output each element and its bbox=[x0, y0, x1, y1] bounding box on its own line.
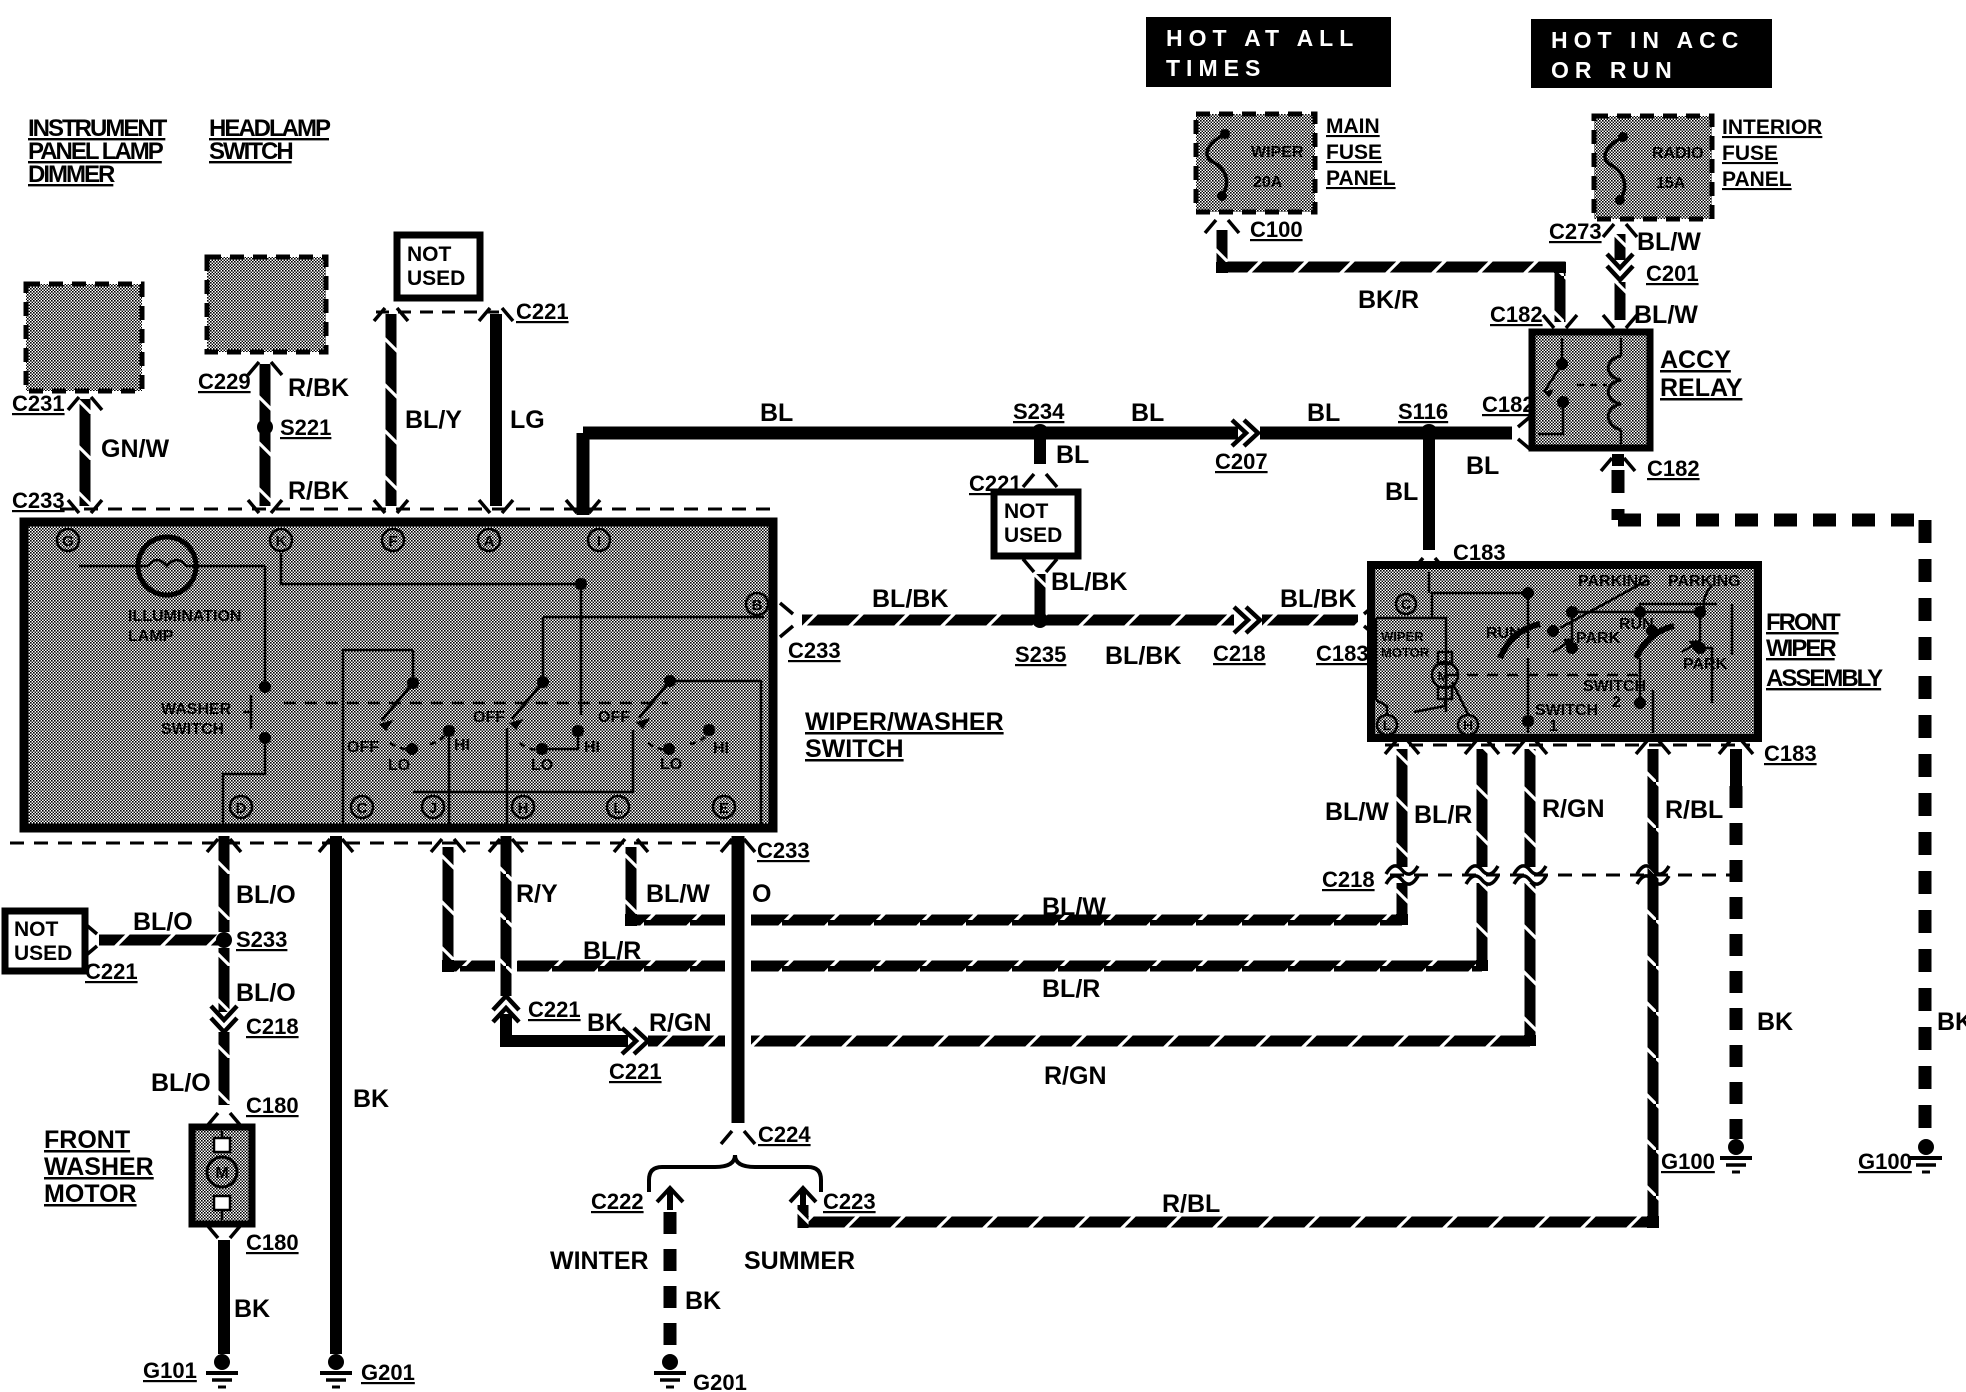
svg-text:PANEL: PANEL bbox=[1722, 168, 1792, 191]
svg-text:WIPER/WASHER: WIPER/WASHER bbox=[805, 708, 1004, 736]
splice S234 bbox=[1031, 424, 1049, 442]
svg-text:F: F bbox=[388, 533, 397, 550]
svg-text:BL/W: BL/W bbox=[1634, 301, 1698, 329]
connector C221 into not-used bbox=[1023, 474, 1057, 487]
label wiper/washer switch bbox=[805, 708, 1004, 763]
svg-text:BL: BL bbox=[1056, 441, 1089, 469]
brace bbox=[649, 1155, 821, 1192]
wire LG bbox=[490, 314, 502, 506]
label: main fuse panel bbox=[1326, 115, 1396, 190]
wire BL/BK below not-used bbox=[1023, 559, 1057, 572]
svg-text:SWITCH: SWITCH bbox=[1535, 702, 1598, 719]
wiper/washer switch box bbox=[24, 522, 773, 828]
dashed link bbox=[1447, 674, 1640, 677]
wire R/GN right vertical + horizontal bbox=[1525, 749, 1536, 867]
svg-text:USED: USED bbox=[14, 942, 72, 965]
svg-text:NOT: NOT bbox=[14, 918, 59, 941]
svg-text:BK: BK bbox=[1937, 1008, 1966, 1036]
svg-text:15A: 15A bbox=[1656, 175, 1686, 192]
label: front wiper assembly bbox=[1766, 609, 1883, 692]
connector C273 bbox=[1603, 224, 1637, 237]
svg-text:C218: C218 bbox=[1213, 641, 1266, 666]
wire BK then R/GN bbox=[506, 1014, 628, 1041]
svg-text:FRONT: FRONT bbox=[1766, 609, 1841, 636]
svg-text:BL/W: BL/W bbox=[1637, 228, 1701, 256]
svg-text:OFF: OFF bbox=[598, 709, 630, 726]
NOT USED box (left) bbox=[5, 911, 85, 971]
svg-text:ILLUMINATION: ILLUMINATION bbox=[128, 608, 241, 625]
connector C207 bbox=[1232, 420, 1258, 446]
svg-text:D: D bbox=[236, 800, 247, 817]
svg-text:C183: C183 bbox=[1316, 641, 1369, 666]
svg-text:INTERIOR: INTERIOR bbox=[1722, 116, 1822, 139]
wire BK/R from C100 to accy relay bbox=[1222, 230, 1560, 322]
svg-text:BL/O: BL/O bbox=[236, 979, 296, 1007]
svg-text:HI: HI bbox=[713, 740, 729, 757]
svg-text:PANEL: PANEL bbox=[1326, 167, 1396, 190]
svg-text:RELAY: RELAY bbox=[1660, 374, 1743, 402]
svg-text:C224: C224 bbox=[758, 1122, 811, 1147]
svg-text:PARKING: PARKING bbox=[1578, 573, 1651, 590]
connector C183 dashed line below assembly bbox=[1385, 744, 1750, 747]
svg-text:C201: C201 bbox=[1646, 261, 1699, 286]
wire BL below S116 to C183 bbox=[1423, 439, 1435, 550]
svg-text:G201: G201 bbox=[361, 1360, 415, 1385]
svg-text:BL/W: BL/W bbox=[1325, 798, 1389, 826]
svg-text:G100: G100 bbox=[1858, 1149, 1912, 1174]
svg-text:BL/O: BL/O bbox=[151, 1069, 211, 1097]
svg-text:C222: C222 bbox=[591, 1189, 644, 1214]
svg-text:C218: C218 bbox=[1322, 867, 1375, 892]
wire GN/W bbox=[80, 399, 91, 506]
svg-text:OFF: OFF bbox=[347, 739, 379, 756]
svg-text:BL: BL bbox=[1307, 399, 1340, 427]
park arrows bbox=[1553, 640, 1572, 652]
svg-text:BL: BL bbox=[1385, 478, 1418, 506]
svg-text:FRONT: FRONT bbox=[44, 1126, 130, 1154]
illumination lamp bbox=[138, 537, 196, 595]
svg-text:BL: BL bbox=[1131, 399, 1164, 427]
svg-text:NOT: NOT bbox=[407, 243, 452, 266]
connector C218 dashed line right bbox=[1390, 874, 1745, 877]
wire O from terminal E bbox=[732, 836, 745, 1123]
svg-text:BL/Y: BL/Y bbox=[405, 406, 462, 434]
fuse RADIO 15A bbox=[1605, 137, 1625, 200]
svg-text:BL/O: BL/O bbox=[236, 881, 296, 909]
connector C180 below motor bbox=[207, 1225, 241, 1238]
front wiper assembly box bbox=[1371, 565, 1758, 738]
svg-text:WIPER: WIPER bbox=[1381, 629, 1424, 644]
instrument panel lamp dimmer box bbox=[26, 284, 142, 391]
splice S221 bbox=[257, 419, 273, 435]
svg-text:FUSE: FUSE bbox=[1722, 142, 1778, 165]
svg-text:K: K bbox=[276, 533, 287, 550]
B internal line bbox=[543, 617, 764, 676]
svg-text:RADIO: RADIO bbox=[1652, 145, 1704, 162]
svg-text:RUN: RUN bbox=[1619, 616, 1654, 633]
headlamp switch box bbox=[207, 257, 326, 352]
svg-text:C233: C233 bbox=[788, 638, 841, 663]
svg-text:BL/BK: BL/BK bbox=[1280, 585, 1356, 613]
svg-text:DIMMER: DIMMER bbox=[28, 161, 115, 188]
front washer motor bbox=[192, 1127, 252, 1224]
svg-text:GN/W: GN/W bbox=[101, 435, 169, 463]
interior fuse panel box bbox=[1594, 116, 1712, 219]
svg-text:WIPER: WIPER bbox=[1251, 144, 1304, 161]
svg-text:SUMMER: SUMMER bbox=[744, 1247, 855, 1275]
svg-text:C221: C221 bbox=[85, 959, 138, 984]
svg-text:BL/R: BL/R bbox=[583, 937, 641, 965]
svg-text:MOTOR: MOTOR bbox=[44, 1180, 137, 1208]
svg-text:G100: G100 bbox=[1661, 1149, 1715, 1174]
svg-text:HOT AT ALL: HOT AT ALL bbox=[1166, 25, 1359, 51]
wire BL/W right vertical + horizontal bbox=[1397, 749, 1408, 867]
svg-text:C273: C273 bbox=[1549, 219, 1602, 244]
svg-text:C231: C231 bbox=[12, 391, 65, 416]
svg-text:J: J bbox=[429, 800, 437, 817]
svg-text:WASHER: WASHER bbox=[161, 701, 232, 718]
svg-text:C233: C233 bbox=[757, 838, 810, 863]
svg-text:USED: USED bbox=[407, 267, 465, 290]
svg-text:TIMES: TIMES bbox=[1166, 55, 1266, 81]
wire BK dashed to G201 bbox=[664, 1212, 677, 1350]
wire BK dashed from assembly bbox=[1730, 749, 1742, 786]
connector C201 bbox=[1607, 254, 1633, 280]
svg-text:BL/R: BL/R bbox=[1042, 975, 1100, 1003]
svg-text:OR RUN: OR RUN bbox=[1551, 57, 1678, 83]
svg-text:SWITCH: SWITCH bbox=[1583, 678, 1646, 695]
svg-text:C233: C233 bbox=[12, 488, 65, 513]
run arcs bbox=[1500, 624, 1540, 658]
svg-text:BL: BL bbox=[1466, 452, 1499, 480]
svg-text:ACCY: ACCY bbox=[1660, 346, 1731, 374]
wire BK dashed from relay to G100 bbox=[1612, 454, 1624, 466]
svg-text:ASSEMBLY: ASSEMBLY bbox=[1766, 665, 1883, 692]
splice S116 bbox=[1420, 424, 1438, 442]
svg-text:C223: C223 bbox=[823, 1189, 876, 1214]
svg-text:C180: C180 bbox=[246, 1230, 299, 1255]
connector C100 bbox=[1205, 220, 1239, 233]
svg-text:BL/O: BL/O bbox=[133, 908, 193, 936]
svg-text:HI: HI bbox=[454, 737, 470, 754]
svg-text:R/BL: R/BL bbox=[1162, 1190, 1220, 1218]
svg-text:LO: LO bbox=[388, 757, 410, 774]
svg-text:PARKING: PARKING bbox=[1668, 573, 1741, 590]
connector C223 bbox=[790, 1188, 816, 1210]
junction dots in assembly bbox=[1522, 587, 1706, 727]
connector C233 dashed line below switch bbox=[10, 842, 752, 845]
switch3 frame bbox=[413, 681, 761, 824]
label: interior fuse panel bbox=[1722, 116, 1822, 191]
label: front washer motor bbox=[44, 1126, 154, 1208]
svg-text:S234: S234 bbox=[1013, 399, 1065, 424]
main fuse panel box bbox=[1196, 114, 1315, 212]
svg-text:LG: LG bbox=[510, 406, 545, 434]
svg-text:E: E bbox=[719, 800, 729, 817]
svg-text:C182: C182 bbox=[1647, 456, 1700, 481]
assembly terminal circles bbox=[1377, 594, 1478, 735]
wire BL main horizontal bbox=[577, 433, 590, 515]
connector C222 bbox=[657, 1188, 683, 1210]
svg-text:R/GN: R/GN bbox=[649, 1009, 712, 1037]
wiper motor frame bbox=[1376, 618, 1446, 712]
svg-text:I: I bbox=[597, 533, 601, 550]
svg-text:C183: C183 bbox=[1764, 741, 1817, 766]
wire BK from terminal C to G201 bbox=[330, 836, 342, 1354]
connector C182 left of relay bbox=[1518, 416, 1531, 450]
svg-text:1: 1 bbox=[1549, 718, 1558, 735]
svg-text:S116: S116 bbox=[1398, 399, 1448, 424]
svg-text:C100: C100 bbox=[1250, 217, 1303, 242]
dashed mechanical link bbox=[284, 702, 668, 705]
ground G100 right bbox=[1910, 1139, 1942, 1172]
connector C224 bbox=[721, 1131, 755, 1144]
svg-text:WINTER: WINTER bbox=[550, 1247, 649, 1275]
label: headlamp switch bbox=[209, 115, 331, 165]
svg-text:C221: C221 bbox=[609, 1059, 662, 1084]
svg-text:C180: C180 bbox=[246, 1093, 299, 1118]
svg-text:R/BK: R/BK bbox=[288, 374, 349, 402]
svg-text:S233: S233 bbox=[236, 927, 287, 952]
parking diagonal lines bbox=[1560, 580, 1712, 628]
wire R/Y from terminal H bbox=[501, 836, 512, 996]
switch cluster 2 bbox=[473, 676, 600, 774]
svg-text:B: B bbox=[752, 597, 763, 614]
svg-text:BK: BK bbox=[685, 1287, 721, 1315]
switch1 frame bbox=[343, 650, 507, 824]
svg-text:NOT: NOT bbox=[1004, 500, 1049, 523]
wire BL below S234 bbox=[1034, 439, 1046, 464]
svg-text:C229: C229 bbox=[198, 369, 251, 394]
svg-text:BK: BK bbox=[587, 1009, 623, 1037]
connector C218 bbox=[211, 1006, 237, 1032]
svg-text:PARK: PARK bbox=[1576, 630, 1621, 647]
svg-text:BL/BK: BL/BK bbox=[1051, 568, 1127, 596]
svg-text:C: C bbox=[357, 800, 368, 817]
svg-text:R/GN: R/GN bbox=[1044, 1062, 1107, 1090]
svg-text:C207: C207 bbox=[1215, 449, 1268, 474]
svg-text:C221: C221 bbox=[528, 997, 581, 1022]
header: HOT IN ACC OR RUN bbox=[1531, 19, 1772, 88]
svg-text:HOT IN ACC: HOT IN ACC bbox=[1551, 27, 1744, 53]
wire BL/BK horizontal bbox=[802, 615, 1234, 626]
wire BL/Y bbox=[386, 314, 397, 506]
svg-text:L: L bbox=[613, 800, 622, 817]
wire BL/O horizontal to S233 bbox=[84, 923, 97, 957]
svg-text:FUSE: FUSE bbox=[1326, 141, 1382, 164]
terminal circles top bbox=[57, 529, 768, 818]
svg-text:M: M bbox=[215, 1165, 228, 1182]
svg-text:LO: LO bbox=[660, 756, 682, 773]
ground G100 left bbox=[1720, 1139, 1752, 1172]
svg-text:OFF: OFF bbox=[473, 709, 505, 726]
svg-text:G101: G101 bbox=[143, 1358, 197, 1383]
svg-text:A: A bbox=[484, 533, 495, 550]
svg-text:MOTOR: MOTOR bbox=[1381, 645, 1430, 660]
svg-text:BL/BK: BL/BK bbox=[872, 585, 948, 613]
connector C180 bbox=[207, 1113, 241, 1126]
wire R/BK upper bbox=[260, 364, 271, 506]
connector C182 below relay bbox=[1601, 458, 1635, 471]
ground G101 bbox=[206, 1354, 238, 1387]
svg-text:S235: S235 bbox=[1015, 642, 1066, 667]
svg-text:C182: C182 bbox=[1490, 302, 1543, 327]
svg-text:20A: 20A bbox=[1253, 174, 1283, 191]
K to I internal line bbox=[281, 553, 581, 715]
connector C221 dashed line under top not-used bbox=[376, 311, 508, 314]
svg-text:LO: LO bbox=[531, 757, 553, 774]
header: HOT AT ALL TIMES bbox=[1146, 17, 1391, 87]
svg-text:MAIN: MAIN bbox=[1326, 115, 1380, 138]
connector C233 dashed line above switch bbox=[60, 508, 770, 511]
connector C182 top of relay bbox=[1543, 315, 1577, 328]
NOT USED box (top) bbox=[397, 235, 480, 298]
wire R/BL right vertical + horizontal bbox=[1648, 749, 1659, 1222]
svg-text:WASHER: WASHER bbox=[44, 1153, 154, 1181]
svg-text:G: G bbox=[62, 533, 74, 550]
ground G201 mid bbox=[654, 1354, 686, 1387]
fuse WIPER 20A bbox=[1207, 134, 1227, 196]
svg-text:SWITCH: SWITCH bbox=[805, 735, 904, 763]
wire BL/O vertical bbox=[219, 836, 230, 932]
svg-text:LAMP: LAMP bbox=[128, 628, 174, 645]
wire BL/R right vertical + horizontal bbox=[1477, 749, 1488, 867]
svg-text:S221: S221 bbox=[280, 415, 331, 440]
svg-text:R/Y: R/Y bbox=[516, 880, 558, 908]
internal bus lines bbox=[1429, 572, 1528, 618]
svg-text:C: C bbox=[1401, 596, 1411, 612]
connector C221 on R/Y bbox=[493, 996, 519, 1022]
svg-text:C221: C221 bbox=[516, 299, 569, 324]
connector C229 bbox=[248, 362, 282, 375]
svg-text:BL: BL bbox=[760, 399, 793, 427]
svg-text:G201: G201 bbox=[693, 1370, 747, 1392]
splice S233 bbox=[216, 932, 232, 948]
svg-text:2: 2 bbox=[1612, 694, 1621, 711]
switch cluster 3 bbox=[598, 675, 729, 773]
svg-text:SWITCH: SWITCH bbox=[209, 138, 292, 165]
svg-text:O: O bbox=[752, 880, 771, 908]
svg-text:HI: HI bbox=[584, 739, 600, 756]
connector C231 bbox=[68, 397, 102, 410]
svg-text:BK/R: BK/R bbox=[1358, 286, 1419, 314]
switch cluster 1 bbox=[347, 677, 470, 774]
svg-text:R/BK: R/BK bbox=[288, 477, 349, 505]
ground G201 left bbox=[320, 1354, 352, 1387]
svg-text:BK: BK bbox=[234, 1295, 270, 1323]
svg-text:BL/W: BL/W bbox=[1042, 893, 1106, 921]
accy relay bbox=[1532, 332, 1650, 448]
wire BL/W from C273 through C201 bbox=[1615, 234, 1626, 260]
svg-text:BL/R: BL/R bbox=[1414, 801, 1472, 829]
svg-text:RUN: RUN bbox=[1486, 625, 1521, 642]
svg-text:BK: BK bbox=[1757, 1008, 1793, 1036]
svg-text:WIPER: WIPER bbox=[1766, 635, 1836, 662]
svg-text:H: H bbox=[518, 800, 529, 817]
svg-text:H: H bbox=[1463, 717, 1473, 733]
svg-text:C182: C182 bbox=[1482, 392, 1535, 417]
label: accy relay bbox=[1660, 346, 1743, 402]
svg-text:R/BL: R/BL bbox=[1665, 796, 1723, 824]
splice S235 bbox=[1032, 612, 1048, 628]
svg-text:L: L bbox=[1383, 717, 1392, 733]
svg-text:BL/W: BL/W bbox=[646, 880, 710, 908]
washer switch internal bbox=[223, 566, 265, 824]
svg-text:BK: BK bbox=[353, 1085, 389, 1113]
svg-text:PARK: PARK bbox=[1683, 656, 1728, 673]
svg-text:R/GN: R/GN bbox=[1542, 795, 1605, 823]
label: instrument panel lamp dimmer bbox=[28, 115, 168, 188]
svg-text:C218: C218 bbox=[246, 1014, 299, 1039]
svg-text:SWITCH: SWITCH bbox=[161, 721, 224, 738]
svg-text:BL/BK: BL/BK bbox=[1105, 642, 1181, 670]
NOT USED box (middle) bbox=[994, 492, 1078, 556]
wire BK to G101 bbox=[218, 1240, 230, 1354]
svg-text:M: M bbox=[1438, 669, 1449, 684]
svg-text:USED: USED bbox=[1004, 524, 1062, 547]
